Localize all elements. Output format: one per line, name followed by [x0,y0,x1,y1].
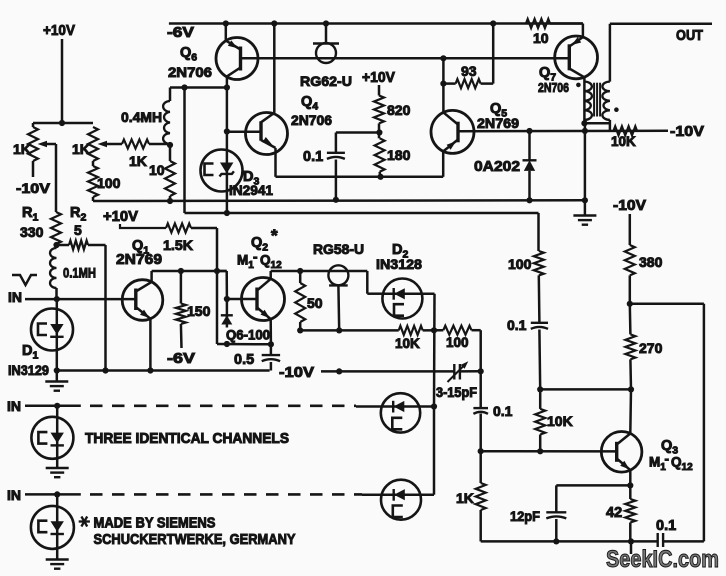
transistor Q4 collector lead [261,140,276,148]
value 0.4MH [121,109,162,125]
svg-text:180: 180 [387,147,411,163]
junction 93 left [440,81,446,87]
resistor 93 [443,79,493,88]
diode channel-3-left bar [51,533,64,535]
junction ch2 right at D2 column [431,403,437,409]
resistor 1K (bottom) [476,483,486,510]
label Q7 [539,65,556,84]
transistor Q5 emitter arrow [447,141,456,150]
svg-text:10K: 10K [395,336,420,351]
junction +10V node [59,120,65,126]
diode D2 triangle [394,288,405,299]
transistor Q2 emitter lead [257,308,271,320]
value IN2941 (D3) [229,182,273,198]
diode channel-2-right bar [392,401,394,413]
diode D3 zener bar [220,171,234,176]
wire Q6 base to Q7 base (long) [241,57,570,60]
coax RG58-U shield bar [329,284,348,286]
resistor R2 5 (horizontal) [57,241,89,250]
value 93 [461,63,477,79]
diode channel-3-right triangle [394,489,405,500]
junction xfmr bottom [581,120,587,126]
diode D1 bar [50,336,63,338]
svg-text:2N706: 2N706 [291,112,332,128]
wire D2 column down [433,294,436,407]
junction 270/Q3 collector node [628,386,634,392]
junction R2 at -10V bus [102,367,108,373]
svg-text:100: 100 [97,175,121,191]
svg-text:380: 380 [639,254,663,270]
junction OA202 top [526,128,532,134]
value 380 [639,254,663,270]
wire IN3 dashed [90,493,362,496]
value 100 [97,175,121,191]
diode D3 circle [201,150,243,192]
coax RG62-U circle [316,43,336,63]
net -6V rail (top bus) [169,22,583,25]
transistor Q5 circle [431,110,474,153]
wire Q3 collector [629,389,632,433]
wiper arrow (left pot) [38,141,48,147]
svg-text:IN: IN [8,289,22,305]
svg-text:2N769: 2N769 [477,115,519,131]
junction Q2 emitter node [268,341,274,347]
wire 10K2-top horizontal [540,388,631,391]
diode OA202 triangle [524,160,535,171]
transistor Q4 collector arrow [262,137,272,145]
wire right pot wiper [104,143,122,146]
input pulse waveform symbol [12,275,37,285]
wire pot top bus [33,122,93,125]
resistor 380 [625,245,635,275]
value 42 [606,505,622,521]
transistor Q6 emitter arrow [228,40,238,48]
wire IN2 dashed [90,404,356,407]
resistor 10K (Q3 bias) [535,409,545,435]
transistor Q1 emitter arrow [140,310,150,318]
wire Q3 base [481,450,617,453]
svg-text:-10V: -10V [16,180,51,196]
label 2N706 (Q4) [291,112,332,128]
svg-text:5: 5 [74,222,82,238]
transformer secondary winding [602,82,610,120]
svg-text:330: 330 [20,224,44,240]
junction 10K2 at Q3 base [537,448,543,454]
value 0.1MH [63,265,96,281]
transistor Q4 emitter lead [261,113,274,122]
diode D1 bracket [38,324,47,336]
svg-text:0.1: 0.1 [507,317,527,333]
value 1K (left pot) [13,141,31,157]
svg-text:-10V: -10V [613,198,646,214]
net -10V (left pot bottom) [16,180,51,196]
svg-text:12pF: 12pF [510,508,540,524]
wire 0.1cap top corner [336,131,380,134]
value 50 [307,295,323,311]
svg-text:-: - [253,250,258,265]
value 3-15pF [436,385,477,400]
svg-text:0.1: 0.1 [493,403,513,419]
svg-text:2N769: 2N769 [116,252,162,268]
label 2N769 (Q5) [477,115,519,131]
wire 100 corner down [472,330,481,371]
svg-text:-6V: -6V [167,351,195,367]
junction trimmer/100 node [478,368,484,374]
resistor 42 [625,485,635,541]
value 0.1 (output) [656,518,676,534]
transistor Q1 collector lead [136,282,152,292]
wire +10V lead (divider) [378,85,381,96]
transistor Q2 collector lead [257,279,271,291]
transistor Q7 emitter lead [569,69,584,78]
junction Q3 emitter node [627,482,633,488]
label 2N706 (Q6) [168,64,212,80]
transistor Q2 emitter arrow [261,310,270,319]
net -6V (150 bottom) [167,351,195,367]
resistor 1K (horizontal, wiper feed) [122,140,149,149]
label Q1 [132,238,149,257]
wire +10V lead (Q1) [120,224,166,228]
svg-text:IN2941: IN2941 [229,182,273,198]
wire 0.4MH-top horizontal [170,86,227,89]
value 820 [387,102,411,118]
wire Q6 emitter from -6V [225,24,228,41]
svg-text:1K: 1K [456,490,474,506]
value 1K (bottom) [456,490,474,506]
value 10K (D2 row) [395,336,420,351]
svg-text:IN: IN [7,398,21,414]
net -10V (Q3 supply) [613,198,646,214]
net OUT [676,28,703,44]
svg-text:-6V: -6V [167,25,194,41]
net IN (channel 2) [7,398,21,414]
potentiometer 1K (left) body [28,123,38,177]
resistor 10 (top, Q7 feed) [526,19,550,28]
value 180 [387,147,411,163]
transformer phase dot (primary) [576,83,581,88]
inductor 0.1MH [50,245,56,299]
value 10K (xfmr) [611,134,636,149]
wire D2 column lower [433,407,436,495]
svg-text:OUT: OUT [676,28,703,44]
wire through D1 [56,299,59,370]
svg-text:3-15pF: 3-15pF [436,385,477,400]
wire trimnode down [479,371,482,407]
transistor Q4 circle [246,113,288,155]
ground symbol (channel 3) [46,560,69,569]
capacitor 0.1 (mid) [531,323,548,329]
coax RG58-U circle [328,265,348,285]
wire 0.5 cap bottom [270,362,273,371]
label Q4 [301,94,318,113]
diode D3 triangle [220,163,233,174]
value 0.1 (Q4 area) [303,149,323,165]
wire Q6-collector to D3 [226,88,229,151]
svg-text:RG58-U: RG58-U [313,241,364,257]
junction IN3/diode [54,491,60,497]
svg-text:-10V: -10V [279,365,314,381]
diode channel-2-left triangle [51,433,64,444]
junction RG62-U at -6V bus [323,20,329,26]
svg-text:2N706: 2N706 [538,80,569,95]
resistor 100 (below right pot) [88,166,98,201]
svg-text:SCHUCKERTWERKE, GERMANY: SCHUCKERTWERKE, GERMANY [94,531,296,548]
wire bottom bus right [663,540,704,543]
wire Q2 collector up [271,271,301,279]
resistor 270 [625,334,635,359]
resistor 10K (xfmr to -10V) [614,126,638,135]
value Q6-100 label bg [225,328,272,342]
wire Q4 base [227,131,261,134]
wire -10V lead [629,214,632,245]
label D2 [392,242,408,261]
wire 12pF bottom [555,519,558,541]
value 330 [20,224,44,240]
wire ground bus y201 [93,199,585,202]
transistor Q2 circle [242,278,285,321]
net +10V (Q1 supply) [103,209,138,225]
wire OA202 bottom lead [528,171,531,200]
transistor Q5 base bar [456,122,459,143]
svg-text:*: * [271,226,278,245]
junction Q4 base node [224,128,230,134]
junction 50 bottom [297,327,303,333]
svg-text:820: 820 [387,102,411,118]
diode OA202 bar [523,159,537,161]
junction 93 at -6V bus [490,20,496,26]
wire left pot wiper [44,144,56,212]
junction Q2 base node [224,296,230,302]
transistor Q3 emitter arrow [620,461,629,470]
svg-text:93: 93 [461,63,477,79]
junction 10K2 top [537,386,543,392]
wire 1.5K to column A [191,228,217,344]
svg-text:IN3128: IN3128 [376,256,422,272]
svg-text:Q6-100: Q6-100 [226,328,270,343]
trimmer capacitor plates [454,364,460,380]
junction node 1K/0.4MH/10 [167,142,173,148]
diode D3 bracket [205,164,214,176]
junction resistor10 to bus [167,198,173,204]
wire 180 bottom [378,172,381,177]
svg-text:100: 100 [508,256,532,272]
junction Q6-100 bottom [224,341,230,347]
transistor Q1 circle [122,280,163,321]
junction Q6-base-wire / Q5 node [440,55,446,61]
junction RG58 shield at bus [336,368,342,374]
diode D1 circle [31,309,73,351]
svg-text:THREE IDENTICAL CHANNELS: THREE IDENTICAL CHANNELS [85,430,289,447]
transformer phase dot (secondary) [614,107,619,112]
resistor 180 [375,138,385,172]
transistor Q1 base bar [134,289,137,311]
wire 0.1cap top [335,133,338,153]
label D3 [243,169,259,188]
coax RG58-U stub [337,285,340,330]
resistor 150 [176,271,186,348]
junction D3 bottom at bus2 [224,210,230,216]
wiper arrow (right pot) [98,141,108,147]
diode D2 bar [393,288,395,300]
junction ground-column at bus [582,197,588,203]
svg-text:IN3129: IN3129 [8,362,49,378]
net IN (channel 1) [8,289,22,305]
wire through D2 [383,292,435,295]
value 1K (horizontal) [129,153,147,169]
ground symbol (channel 2) [46,468,69,477]
label RG62-U [300,73,352,89]
svg-text:-: - [665,452,670,467]
svg-text:10K: 10K [547,413,573,429]
resistor 100 (horizontal) [443,326,471,335]
junction 820/180 node [376,129,382,135]
net +10V (divider) [362,70,395,86]
diode channel-3-left triangle [51,521,64,532]
transistor Q6 collector lead [227,68,241,77]
watermark SeekIC.com [606,546,719,573]
diode channel-3-right bar [393,489,395,501]
wire 380 bottom [629,275,632,303]
value 0A202 [474,158,520,175]
svg-text:10K: 10K [611,134,636,149]
wire columnA branch to Q2 base [217,271,227,299]
wire right edge loop [630,304,704,542]
wire 100 to cap [538,275,541,322]
value 150 [187,303,211,319]
wire 0.1cap bottom [335,160,338,200]
wire ground stub (bottom) [630,541,633,554]
wire basecol to 1K [479,451,482,483]
junction Q4 emitter at bus [271,20,277,26]
value IN3129 (D1) [8,362,49,378]
capacitor 0.1 (output, bottom right) [658,533,663,547]
resistor 50 [295,271,305,330]
wire Q5 emitter down [442,151,445,176]
svg-text:10: 10 [533,30,549,46]
wire through ch2 diode [56,406,59,468]
junction 0.1cap at bus [333,197,339,203]
label 2N769 (Q1) [116,252,162,268]
svg-text:+10V: +10V [43,22,75,39]
wire 10K2 bottom [539,435,542,452]
wire Q6 collector down [226,76,229,87]
junction OA202 bottom at bus [526,197,532,203]
wire through D3 [226,150,229,213]
wire 10 to Q7 [550,24,583,38]
wire Q1 emitter down [149,319,152,371]
value Q6-100 [226,328,270,343]
transistor Q7 collector arrow [572,37,582,45]
wire Q4 collector down [274,148,277,177]
wire 0.5 cap top [270,344,273,354]
label 2N706 (Q7) [538,80,569,95]
junction Q6 emitter at bus [223,20,229,26]
wire 10K-100 link [423,329,444,332]
label D1 [22,343,38,362]
label -6V [167,25,194,41]
coax RG62-U stub [325,24,328,44]
wire +10V lead down [61,39,64,123]
wire RG58-to-D2 corner [367,271,383,294]
wire cap to Q3 base node [479,414,482,452]
transistor Q3 circle [601,432,642,473]
trimmer arrow [448,361,469,382]
value 0.1 (trim column) [493,403,513,419]
wire 93 left vertical [442,58,445,83]
svg-text:0.1MH: 0.1MH [63,265,96,281]
transistor Q6 base bar [239,47,242,71]
net -10V (right) [670,124,704,140]
junction Q6 collector node [224,84,230,90]
wire trimmer right [460,370,481,373]
svg-text:1.5K: 1.5K [163,237,193,253]
wire IN3 [25,493,81,496]
svg-text:100: 100 [446,335,469,350]
transistor Q3 collector lead [617,434,631,445]
wire Q1 collector up [152,271,227,282]
label M1-Q12 (Q2) [237,250,282,272]
value 10 (top) [533,30,549,46]
value 0.5 [234,352,254,368]
junction IN1/D1 [54,296,60,302]
junction 180 bottom node [377,174,383,180]
ground symbol (D1) [45,371,68,391]
svg-text:0.1: 0.1 [656,518,676,534]
diode channel-3-right circle [381,480,421,520]
wire 93 right to -6V bus [492,24,495,84]
value 10K (Q3 bias) [547,413,573,429]
svg-text:RG62-U: RG62-U [300,73,352,89]
wire -10V bus (to trimmer) [321,370,455,373]
svg-text:IN: IN [7,487,21,503]
wire 1K to bottom bus [479,510,482,541]
wire -10V bus (bottom) [57,369,270,372]
potentiometer 1K (right) body [88,127,98,166]
resistor 10 (vertical) [165,145,175,201]
wire cap to 10K2 [538,330,541,390]
diode channel-2-left bar [51,444,64,446]
wire IN1 [25,298,136,301]
value 12pF [510,508,540,524]
transistor Q7 circle [555,36,598,79]
label R1 [22,205,38,224]
label RG58-U [313,241,364,257]
capacitor 0.1 (trim column) [473,408,488,414]
svg-text:1K: 1K [13,141,31,157]
diode channel-2-left bracket [38,432,47,444]
svg-text:1K: 1K [129,153,147,169]
transistor Q1 emitter lead [136,307,151,319]
wire 270 bottom [629,359,632,389]
junction at x184.5 [181,84,187,90]
diode D2 circle [382,279,422,319]
diode D1 triangle [50,324,63,335]
transistor Q6 emitter lead [226,41,241,50]
wire secondary top to OUT [610,24,712,82]
coax RG62-U shield bar [313,42,339,44]
resistor 820 [374,96,384,124]
wire Q4-collector/Q5-emitter horizontal [276,176,444,179]
label Q2 with star [251,226,278,254]
junction D1 bottom [54,367,60,373]
label Q5 [490,101,507,120]
diode channel-3-right bracket [393,506,403,518]
value 0.1 (mid) [507,317,527,333]
svg-text:0.5: 0.5 [234,352,254,368]
transistor Q5 collector lead [443,112,458,124]
junction 150 top [178,268,184,274]
junction R1/R2/0.1MH node [53,242,59,248]
